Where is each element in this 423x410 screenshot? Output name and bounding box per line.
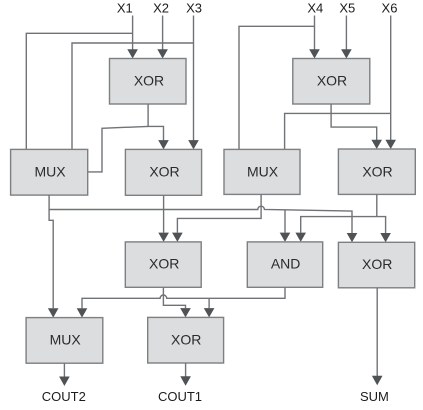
gate XOR G6 (row 3 right) xyxy=(338,242,414,287)
gate XOR G7 (row 3 left) xyxy=(125,242,201,287)
svg-text:X1: X1 xyxy=(117,1,133,16)
svg-text:XOR: XOR xyxy=(171,332,201,348)
wire X3 stem into XOR G2 xyxy=(188,16,199,150)
wire X4 branch left down to MUX M2 xyxy=(239,26,315,149)
svg-text:COUT2: COUT2 xyxy=(42,389,86,404)
wire X1 stem into XOR G1 xyxy=(127,16,138,59)
wire branch of AND G5 bus down to XOR G8 right input xyxy=(204,298,215,317)
wire MUX M1 output jog down to MUX M3 left input xyxy=(48,210,59,318)
svg-text:X5: X5 xyxy=(339,1,355,16)
wire XOR G6 output down to SUM xyxy=(372,288,383,386)
gate AND G5 (row 3 middle) xyxy=(247,242,322,287)
svg-text:XOR: XOR xyxy=(362,163,392,179)
wire XOR G4 output distribution to AND G5 right input and XOR G6 right input xyxy=(295,194,391,242)
svg-text:XOR: XOR xyxy=(362,256,392,272)
svg-text:X6: X6 xyxy=(382,1,398,16)
gate XOR G8 (row 4 right) xyxy=(148,317,224,363)
svg-text:SUM: SUM xyxy=(360,389,389,404)
svg-text:XOR: XOR xyxy=(149,256,179,272)
svg-text:X2: X2 xyxy=(153,1,169,16)
svg-text:XOR: XOR xyxy=(149,163,179,179)
svg-text:COUT1: COUT1 xyxy=(158,389,202,404)
wire XOR G1 output to MUX M1 select (right side) xyxy=(88,126,148,171)
wire XOR G2 output down to XOR G7 left input xyxy=(158,195,169,242)
gate XOR G2 (row 2 mid-left) xyxy=(125,149,201,195)
svg-text:X3: X3 xyxy=(186,1,202,16)
wire AND G5 output with hop over XOR G7 output, to MUX M3 right input xyxy=(77,287,285,317)
gate MUX M1 (row 2 left) xyxy=(11,149,88,195)
wire X6 stem into XOR G4 xyxy=(385,16,396,150)
wire XOR G8 output to COUT1 xyxy=(180,363,191,386)
svg-text:MUX: MUX xyxy=(34,163,66,179)
svg-text:XOR: XOR xyxy=(317,72,347,88)
gate XOR G3 (top right) xyxy=(293,59,370,105)
wire X2 stem into XOR G1 xyxy=(157,16,168,59)
wire XOR G7 output to XOR G8 left input xyxy=(163,287,190,317)
gate MUX M3 (row 4 left) xyxy=(26,318,103,364)
wire XOR G3 output branch / X6 net to MUX M2 input xyxy=(285,113,391,149)
wire XOR G1 output to XOR G2 input xyxy=(148,104,169,149)
svg-text:AND: AND xyxy=(271,256,301,272)
svg-text:MUX: MUX xyxy=(50,332,82,348)
svg-text:XOR: XOR xyxy=(134,72,164,88)
gate XOR G4 (row 2 right) xyxy=(338,149,415,194)
wire X4 stem into XOR G3 xyxy=(309,16,320,59)
wire X3 branch left down to MUX M1 xyxy=(72,43,194,149)
wire MUX M1 output bus with hop over MUX M2 output, to XOR G6 left input xyxy=(49,195,357,242)
gate MUX M2 (row 2 mid-right) xyxy=(224,149,300,194)
wire MUX M3 output to COUT2 xyxy=(59,363,70,386)
svg-text:X4: X4 xyxy=(307,1,323,16)
wire XOR G3 output to XOR G4 input xyxy=(331,104,382,149)
wire branch of MUX M1 bus down into AND G5 left input xyxy=(280,210,291,242)
wire X5 stem into XOR G3 xyxy=(341,16,352,59)
gate XOR G1 (top left) xyxy=(110,59,187,105)
wire MUX M2 output left then down to XOR G7 right input xyxy=(172,194,261,242)
wire X1 branch left down to MUX M1 xyxy=(26,33,132,149)
svg-text:MUX: MUX xyxy=(247,163,279,179)
